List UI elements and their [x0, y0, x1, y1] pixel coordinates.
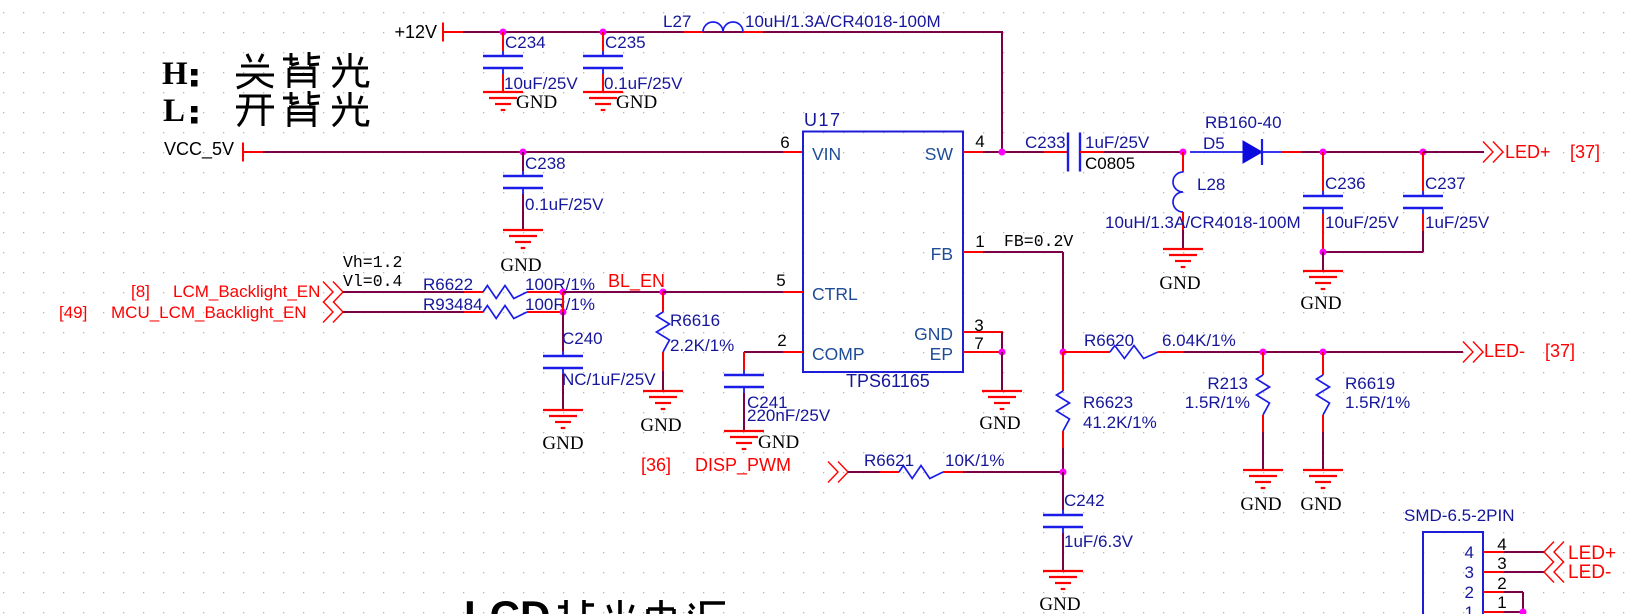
value 220nF/25V C241	[747, 406, 831, 425]
svg-text:220nF/25V: 220nF/25V	[747, 406, 831, 425]
pin number 2	[777, 331, 786, 350]
svg-text:+12V: +12V	[394, 22, 437, 42]
junction FB node top	[1060, 349, 1067, 356]
svg-text:R6621: R6621	[864, 451, 914, 470]
svg-text:LED+: LED+	[1505, 142, 1551, 162]
junction BL_EN at R6616	[660, 289, 667, 296]
pin number 6	[780, 133, 789, 152]
svg-text:Vh=1.2: Vh=1.2	[343, 253, 402, 272]
svg-text:H: H	[162, 56, 188, 92]
op-amp U17 TPS61165 body	[803, 132, 963, 373]
ground under C236	[1303, 271, 1343, 289]
wire R6621 to FB node	[963, 471, 1063, 473]
resistor R6620 left lead	[1063, 351, 1110, 353]
svg-text:GND: GND	[1039, 594, 1080, 614]
port [8] LCM_Backlight_EN	[131, 282, 343, 303]
capacitor C236 bottom lead	[1322, 214, 1324, 252]
wire FB horizontal	[983, 251, 1063, 253]
wire R6619 to gnd	[1322, 432, 1324, 470]
value 10K/1% R6621	[945, 451, 1005, 470]
resistor R6623 top lead	[1062, 352, 1064, 391]
junction VCC at C238	[520, 149, 527, 156]
connector pin 1 stub	[1483, 611, 1504, 613]
capacitor C236 top lead	[1322, 152, 1324, 191]
label R6623	[1083, 393, 1133, 412]
ground label GND C238	[500, 255, 541, 276]
label R6622	[423, 275, 473, 294]
wire BL_EN to R6616	[563, 291, 663, 293]
svg-text:C233: C233	[1025, 133, 1066, 152]
capacitor C234	[483, 51, 523, 74]
resistor R213	[1257, 375, 1270, 415]
svg-text:6.04K/1%: 6.04K/1%	[1162, 331, 1236, 350]
ground label GND R6619	[1300, 494, 1341, 515]
svg-text:VIN: VIN	[812, 144, 841, 164]
ground label GND L28	[1159, 273, 1200, 294]
inductor L27 right lead	[743, 31, 763, 33]
ground under R6619	[1303, 470, 1343, 488]
connector pin 3 stub	[1483, 571, 1504, 573]
capacitor C233 right lead	[1080, 151, 1104, 153]
svg-text:L28: L28	[1197, 175, 1225, 194]
power port +12V label	[394, 22, 437, 42]
svg-text:LED+: LED+	[1568, 543, 1616, 564]
diode D5	[1243, 139, 1281, 165]
svg-text:10uH/1.3A/CR4018-100M: 10uH/1.3A/CR4018-100M	[1105, 213, 1301, 232]
ground under R6616	[643, 391, 683, 409]
junction FB node bottom	[1060, 469, 1067, 476]
label SMD-6.5-2PIN	[1404, 506, 1515, 525]
label C233	[1025, 133, 1066, 152]
svg-text:FB: FB	[931, 244, 953, 264]
resistor R6620	[1110, 346, 1158, 359]
port [49] MCU_LCM_Backlight_EN	[59, 302, 343, 323]
capacitor C237	[1403, 191, 1443, 214]
svg-text:[36]: [36]	[641, 455, 671, 475]
capacitor C241	[724, 370, 764, 393]
resistor R93484 left lead	[464, 311, 483, 313]
ground under R213	[1243, 470, 1283, 488]
text bei row1 (hanzi)	[283, 52, 320, 88]
svg-text:2.2K/1%: 2.2K/1%	[670, 336, 734, 355]
svg-text:[37]: [37]	[1570, 142, 1600, 162]
connector pin name 2	[1465, 583, 1474, 602]
svg-text:GND: GND	[542, 433, 583, 454]
svg-text:MCU_LCM_Backlight_EN: MCU_LCM_Backlight_EN	[111, 303, 307, 322]
svg-text:C237: C237	[1425, 174, 1466, 193]
value 0.1uF/25V C235	[604, 74, 683, 93]
svg-text:CTRL: CTRL	[812, 284, 858, 304]
diode D5 anode lead	[1190, 151, 1243, 153]
svg-text:R6620: R6620	[1084, 331, 1134, 350]
svg-text:[49]: [49]	[59, 303, 87, 322]
junction SW rail at L28	[1180, 149, 1187, 156]
text Vh=1.2	[343, 253, 402, 272]
text H colon	[162, 56, 198, 92]
wire R6616 to gnd	[662, 371, 664, 391]
wire EP node down	[1001, 352, 1003, 391]
label R6620	[1084, 331, 1134, 350]
value 1uF/6.3V C242	[1064, 532, 1134, 551]
resistor R6622	[483, 286, 527, 299]
inductor L27 left lead	[684, 31, 703, 33]
port LED+ at connector	[1544, 542, 1616, 565]
svg-text:GND: GND	[1300, 494, 1341, 515]
svg-text:4: 4	[1465, 543, 1474, 562]
junction SW rail at C237	[1420, 149, 1427, 156]
capacitor C235 bottom lead	[602, 74, 604, 92]
power port VCC_5V label	[164, 139, 234, 160]
svg-text:Vl=0.4: Vl=0.4	[343, 272, 403, 291]
port LED+ [37]	[1483, 142, 1600, 163]
svg-text:R6619: R6619	[1345, 374, 1395, 393]
resistor R6622 left lead	[464, 291, 483, 293]
svg-text:GND: GND	[640, 415, 681, 436]
svg-text:[8]: [8]	[131, 282, 150, 301]
label C240	[562, 329, 603, 348]
power port VCC_5V tick	[243, 143, 263, 162]
ground label GND C242	[1039, 594, 1080, 614]
svg-text:LCD: LCD	[464, 592, 550, 614]
svg-text:BL_EN: BL_EN	[608, 271, 665, 292]
junction BL_EN at C240	[560, 289, 567, 296]
capacitor C240 top lead	[562, 312, 564, 351]
svg-text:TPS61165: TPS61165	[846, 371, 930, 391]
resistor R6623	[1057, 391, 1070, 431]
text guang row1 (hanzi)	[332, 53, 368, 87]
svg-text:C235: C235	[605, 33, 646, 52]
ground under C234	[483, 92, 523, 110]
label C236	[1325, 174, 1366, 193]
wire pin1 to junction	[1504, 611, 1523, 613]
label C237	[1425, 174, 1466, 193]
ground under C240	[543, 410, 583, 428]
label L28	[1197, 175, 1225, 194]
junction LED- at R213	[1260, 349, 1267, 356]
label R93484	[423, 295, 483, 314]
svg-text:R213: R213	[1207, 374, 1248, 393]
label R6619	[1345, 374, 1395, 393]
svg-text:2: 2	[1497, 574, 1506, 593]
label RB160-40	[1205, 113, 1282, 132]
pin 7 EP stub	[963, 351, 1003, 353]
connector J SMD-6.5-2PIN body	[1423, 532, 1483, 614]
resistor R213 bottom lead	[1262, 415, 1264, 432]
net label BL_EN	[608, 271, 665, 292]
resistor R93484	[483, 306, 527, 319]
capacitor C233 left lead	[1044, 151, 1068, 153]
capacitor C241 bottom lead	[743, 393, 745, 431]
pin name FB	[931, 244, 953, 264]
label L27	[663, 12, 691, 31]
ground label GND EP	[979, 413, 1020, 434]
label C238	[525, 154, 566, 173]
resistor R6623 bottom lead	[1062, 431, 1064, 448]
title hanzi dian top (clipped)	[648, 600, 674, 614]
wire +12V rail vertical down to SW node	[1001, 31, 1003, 152]
capacitor C237 bottom lead	[1422, 214, 1424, 231]
pin number 4	[975, 132, 984, 151]
pin number 7	[974, 334, 983, 353]
svg-text:GND: GND	[1240, 494, 1281, 515]
ground label GND C235	[616, 92, 657, 113]
svg-text:1: 1	[1497, 593, 1506, 612]
pin number 3	[974, 316, 983, 335]
resistor R6616 bottom lead	[662, 352, 664, 371]
label D5	[1203, 134, 1225, 153]
junction SW rail at C236	[1320, 149, 1327, 156]
title LCD (clipped)	[464, 592, 550, 614]
svg-text:GND: GND	[616, 92, 657, 113]
label TPS61165	[846, 371, 930, 391]
svg-text:3: 3	[1465, 563, 1474, 582]
svg-text:GND: GND	[914, 324, 953, 344]
svg-text:GND: GND	[1159, 273, 1200, 294]
wire COMP to C241	[744, 351, 783, 353]
wire GND pin down to EP	[1001, 332, 1003, 352]
wire port to R6622	[343, 291, 464, 293]
wire DISP_PWM to R6621	[848, 471, 880, 473]
power port +12V tick	[443, 23, 463, 42]
wire LED- rail	[1184, 351, 1463, 353]
svg-text:DISP_PWM: DISP_PWM	[695, 455, 791, 476]
junction EP node	[999, 349, 1006, 356]
wire +12V rail horizontal	[463, 31, 1003, 33]
svg-text:L27: L27	[663, 12, 691, 31]
value 10uH/1.3A/CR4018-100M L27	[745, 12, 941, 31]
svg-text:NC/1uF/25V: NC/1uF/25V	[562, 370, 656, 389]
pin 6 VIN stub	[783, 151, 803, 153]
resistor R6616 top lead	[662, 292, 664, 312]
text FB=0.2V	[1004, 232, 1073, 251]
svg-text:7: 7	[974, 334, 983, 353]
svg-text:L: L	[163, 93, 185, 129]
pin name VIN	[812, 144, 841, 164]
text L colon	[163, 93, 198, 129]
capacitor C240 bottom lead	[562, 374, 564, 410]
value 1.5R/1% R6619	[1345, 393, 1410, 412]
resistor R93484 right lead	[527, 311, 563, 313]
label C241	[747, 393, 788, 412]
resistor R6621 right lead	[943, 471, 963, 473]
ground under C241	[724, 431, 764, 449]
svg-text:GND: GND	[1300, 293, 1341, 314]
svg-text:D5: D5	[1203, 134, 1225, 153]
wire C233 to diode node	[1104, 151, 1183, 153]
value 1uF/25V C237	[1425, 213, 1490, 232]
inductor L28 top lead	[1182, 152, 1184, 172]
text guang row2 (hanzi)	[332, 92, 368, 126]
svg-text:C242: C242	[1064, 491, 1105, 510]
pin number 1 connector	[1497, 593, 1506, 612]
connector pin 2 stub	[1483, 591, 1504, 593]
wire SW to C233	[983, 151, 1044, 153]
svg-text:6: 6	[780, 133, 789, 152]
resistor R6619	[1317, 375, 1330, 415]
pin number 5	[776, 271, 785, 290]
port LED- [37]	[1463, 341, 1575, 363]
value 2.2K/1% R6616	[670, 336, 734, 355]
svg-text:R6622: R6622	[423, 275, 473, 294]
svg-text:1.5R/1%: 1.5R/1%	[1345, 393, 1410, 412]
pin 2 COMP stub	[783, 351, 803, 353]
ground under C235	[583, 92, 623, 110]
capacitor C234 top lead	[502, 32, 504, 51]
pin 1 FB stub	[963, 251, 983, 253]
ground label GND R213	[1240, 494, 1281, 515]
pin number 3 connector	[1497, 554, 1506, 573]
svg-text:10uF/25V: 10uF/25V	[504, 74, 578, 93]
capacitor C238	[503, 171, 543, 194]
resistor R6620 right lead	[1158, 351, 1184, 353]
svg-text:SW: SW	[925, 144, 954, 164]
svg-text:COMP: COMP	[812, 344, 865, 364]
capacitor C234 bottom lead	[502, 74, 504, 92]
wire port to R93484	[343, 311, 464, 313]
capacitor C235 top lead	[602, 32, 604, 51]
pin number 2 connector	[1497, 574, 1506, 593]
svg-text:1.5R/1%: 1.5R/1%	[1185, 393, 1250, 412]
svg-text:LCM_Backlight_EN: LCM_Backlight_EN	[173, 282, 320, 301]
svg-text:R6623: R6623	[1083, 393, 1133, 412]
svg-text:1uF/25V: 1uF/25V	[1425, 213, 1490, 232]
svg-text:C236: C236	[1325, 174, 1366, 193]
svg-text:RB160-40: RB160-40	[1205, 113, 1282, 132]
svg-text:LED-: LED-	[1568, 562, 1611, 583]
svg-text:1uF/25V: 1uF/25V	[1085, 133, 1150, 152]
ground under C238	[503, 230, 543, 248]
svg-text:10uH/1.3A/CR4018-100M: 10uH/1.3A/CR4018-100M	[745, 12, 941, 31]
svg-text:4: 4	[975, 132, 984, 151]
ground label GND R6616	[640, 415, 681, 436]
svg-text:1: 1	[1465, 603, 1474, 614]
resistor R6619 top lead	[1322, 352, 1324, 375]
capacitor C233	[1068, 133, 1080, 172]
svg-text:5: 5	[776, 271, 785, 290]
resistor R6616	[657, 312, 670, 352]
value 100R/1% R93484	[525, 295, 595, 314]
wire R6623 to C242 node	[1062, 448, 1064, 472]
svg-text:C240: C240	[562, 329, 603, 348]
svg-text:VCC_5V: VCC_5V	[164, 139, 234, 160]
text bei row2 (hanzi)	[283, 91, 320, 127]
capacitor C237 top lead	[1422, 152, 1424, 191]
connector pin name 1	[1465, 603, 1474, 614]
svg-text:0.1uF/25V: 0.1uF/25V	[525, 195, 604, 214]
pin 3 GND stub	[963, 331, 1003, 333]
port LED- at connector	[1544, 562, 1611, 584]
capacitor C240	[543, 351, 583, 374]
wire C236 node to gnd	[1322, 252, 1324, 271]
ground label GND C236	[1300, 293, 1341, 314]
connector pin name 3	[1465, 563, 1474, 582]
svg-text:U17: U17	[804, 110, 842, 130]
text kai (hanzi)	[236, 96, 274, 126]
pin name CTRL	[812, 284, 858, 304]
diode D5 cathode stub	[1281, 151, 1301, 153]
value 0.1uF/25V C238	[525, 195, 604, 214]
pin 5 CTRL stub	[783, 291, 803, 293]
connector pin name 4	[1465, 543, 1474, 562]
ground under C242	[1043, 571, 1083, 589]
capacitor C235	[583, 51, 623, 74]
pin name GND	[914, 324, 953, 344]
pin number 1	[975, 232, 984, 251]
wire pin2 jog down	[1522, 592, 1524, 612]
wire L28 to gnd	[1182, 230, 1184, 249]
label R6621	[864, 451, 914, 470]
pin 4 SW stub	[963, 151, 983, 153]
connector pin 4 stub	[1483, 551, 1504, 553]
svg-text:FB=0.2V: FB=0.2V	[1004, 232, 1073, 251]
label C235	[605, 33, 646, 52]
ground label GND C241	[758, 432, 799, 453]
text guan (hanzi)	[236, 54, 274, 88]
value C0805 C233	[1085, 154, 1135, 173]
junction LED- at R6619	[1320, 349, 1327, 356]
svg-text:GND: GND	[979, 413, 1020, 434]
capacitor C237 bottom lead lower	[1422, 231, 1424, 252]
svg-text:GND: GND	[516, 92, 557, 113]
value 1uF/25V C233	[1085, 133, 1150, 152]
capacitor C242 top lead	[1062, 472, 1064, 510]
inductor L27	[703, 22, 743, 32]
svg-text:1uF/6.3V: 1uF/6.3V	[1064, 532, 1134, 551]
svg-text:C238: C238	[525, 154, 566, 173]
label R213	[1207, 374, 1248, 393]
pin name SW	[925, 144, 954, 164]
wire pin4 to LED+ port	[1504, 551, 1544, 553]
svg-text:GND: GND	[758, 432, 799, 453]
svg-text:10K/1%: 10K/1%	[945, 451, 1005, 470]
pin name COMP	[812, 344, 865, 364]
title hanzi guang top (clipped)	[608, 600, 633, 614]
title hanzi bei top (clipped)	[558, 600, 594, 614]
svg-text:C234: C234	[505, 33, 546, 52]
value 10uF/25V C234	[504, 74, 578, 93]
wire VCC_5V to VIN	[263, 151, 783, 153]
junction R93484 node	[560, 309, 567, 316]
resistor R213 top lead	[1262, 352, 1264, 375]
wire C237 bottom to C236 bottom	[1323, 251, 1423, 253]
title hanzi yuan top (clipped)	[689, 603, 725, 614]
svg-text:R6616: R6616	[670, 311, 720, 330]
value 41.2K/1% R6623	[1083, 413, 1157, 432]
svg-text:EP: EP	[930, 344, 953, 364]
wire diode to C236	[1301, 151, 1423, 153]
wire BL_EN down to R93484 node	[562, 292, 564, 312]
inductor L28 bottom lead	[1182, 212, 1184, 230]
svg-text:R93484: R93484	[423, 295, 483, 314]
svg-text:2: 2	[1465, 583, 1474, 602]
svg-text:0.1uF/25V: 0.1uF/25V	[604, 74, 683, 93]
pin number 4 connector	[1497, 535, 1506, 554]
port [36] DISP_PWM	[641, 455, 848, 483]
svg-text:[37]: [37]	[1545, 341, 1575, 361]
value 6.04K/1% R6620	[1162, 331, 1236, 350]
resistor R6622 right lead	[527, 291, 563, 293]
ground label GND C240	[542, 433, 583, 454]
svg-text:LED-: LED-	[1484, 341, 1525, 361]
wire R213 to gnd	[1262, 432, 1264, 470]
resistor R6619 bottom lead	[1322, 415, 1324, 432]
capacitor C238 bottom lead	[522, 194, 524, 230]
junction +12V at C235	[600, 29, 607, 36]
label C234	[505, 33, 546, 52]
value 10uF/25V C236	[1325, 213, 1399, 232]
svg-text:41.2K/1%: 41.2K/1%	[1083, 413, 1157, 432]
wire C237 to LED+ port	[1423, 151, 1484, 153]
